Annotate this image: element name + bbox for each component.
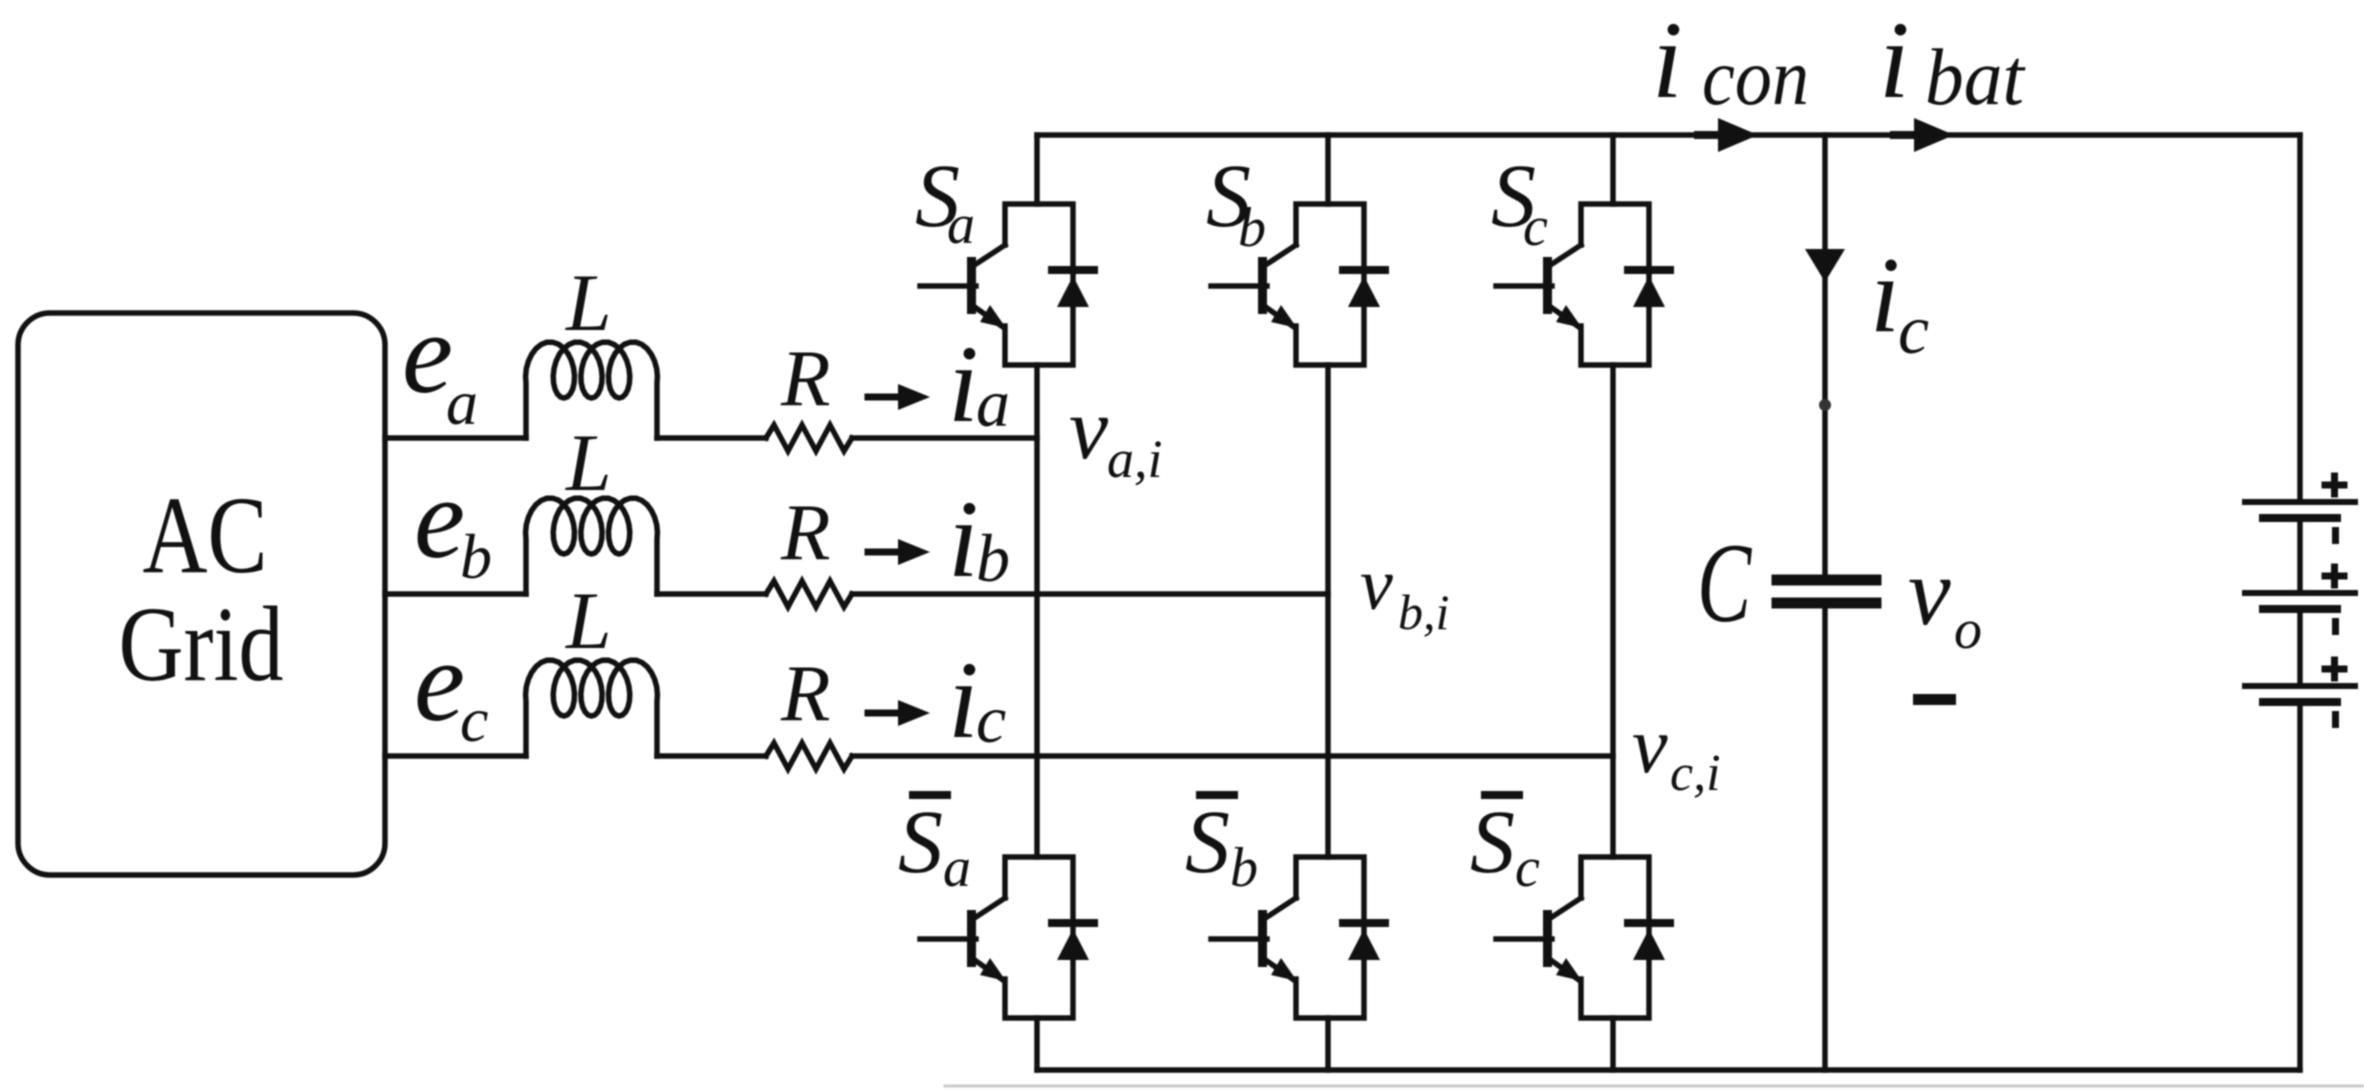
battery cell 1 <box>2245 476 2355 544</box>
svg-text:b: b <box>1230 837 1258 899</box>
label S_b bar <box>1196 791 1238 799</box>
svg-text:a,i: a,i <box>1107 429 1163 489</box>
label minus of v_o <box>1913 694 1956 705</box>
svg-text:c: c <box>460 684 488 755</box>
svg-text:v: v <box>1069 381 1109 478</box>
svg-text:i: i <box>1879 0 1910 121</box>
svg-text:L: L <box>565 257 612 348</box>
arrow i_a <box>868 394 898 401</box>
artifact dot on capacitor wire <box>1819 399 1831 411</box>
AC Grid source box <box>18 313 385 875</box>
IGBT switch Sa <box>920 204 1094 365</box>
svg-text:i: i <box>948 478 979 600</box>
svg-text:i: i <box>948 323 979 445</box>
svg-text:Grid: Grid <box>119 586 284 704</box>
svg-text:c: c <box>1523 196 1548 258</box>
inductor L phase b <box>526 498 658 594</box>
IGBT switch Sc <box>1496 204 1670 365</box>
label S_c bar <box>1481 791 1523 799</box>
leg phase a <box>1034 135 1040 1070</box>
battery cell 3 <box>2245 660 2355 728</box>
capacitor C <box>1777 575 1876 586</box>
wire phase a <box>385 435 1037 441</box>
arrow i_c (down) <box>1805 249 1845 282</box>
svg-text:v: v <box>1632 702 1668 790</box>
wire phase c <box>385 753 1613 759</box>
inductor L phase a <box>526 342 658 438</box>
svg-text:e: e <box>414 455 465 582</box>
arrow i_c <box>868 710 898 717</box>
resistor R phase c <box>766 743 852 769</box>
svg-text:C: C <box>1697 521 1752 646</box>
svg-text:R: R <box>780 333 830 423</box>
svg-text:o: o <box>1954 599 1982 661</box>
svg-text:a: a <box>446 367 478 438</box>
leg phase b <box>1325 135 1331 1070</box>
svg-text:i: i <box>948 639 979 761</box>
svg-text:c: c <box>976 681 1006 757</box>
svg-text:L: L <box>565 575 612 666</box>
arrow i_con <box>1698 118 1758 152</box>
svg-text:R: R <box>780 487 830 577</box>
svg-text:b: b <box>1238 197 1266 259</box>
arrow i_b <box>868 549 898 556</box>
svg-text:e: e <box>414 618 465 745</box>
svg-text:S: S <box>1470 793 1515 892</box>
resistor R phase a <box>766 425 852 451</box>
svg-text:c: c <box>1515 837 1540 899</box>
svg-text:v: v <box>1360 544 1393 626</box>
svg-text:c: c <box>1898 292 1929 369</box>
svg-text:bat: bat <box>1925 34 2026 122</box>
svg-text:a: a <box>976 365 1010 441</box>
svg-text:v: v <box>1908 538 1951 645</box>
svg-text:S: S <box>898 793 943 892</box>
svg-text:c,i: c,i <box>1670 745 1721 802</box>
svg-text:con: con <box>1702 34 1809 122</box>
IGBT switch Sa-bar <box>920 857 1094 1018</box>
svg-text:b: b <box>976 520 1010 596</box>
leg phase c <box>1610 135 1616 1070</box>
battery branch wire <box>2297 135 2303 1070</box>
svg-text:AC: AC <box>143 474 268 596</box>
IGBT switch Sb <box>1211 204 1385 365</box>
capacitor branch wire <box>1822 135 1828 1070</box>
bottom scan artifact line <box>945 1085 2364 1088</box>
inductor L phase c <box>526 660 658 756</box>
svg-text:R: R <box>780 648 830 738</box>
arrow i_bat <box>1894 118 1954 152</box>
IGBT switch Sb-bar <box>1211 857 1385 1018</box>
svg-text:b,i: b,i <box>1398 584 1449 640</box>
label S_a bar <box>909 791 951 799</box>
battery cell 2 <box>2245 567 2355 635</box>
svg-text:a: a <box>943 837 971 899</box>
IGBT switch Sc-bar <box>1496 857 1670 1018</box>
wire phase b <box>385 591 1328 597</box>
bottom DC bus <box>1037 1067 2300 1073</box>
svg-text:i: i <box>1870 236 1900 355</box>
top DC bus <box>1037 132 2300 138</box>
svg-text:b: b <box>460 521 492 592</box>
resistor R phase b <box>766 581 852 607</box>
svg-text:L: L <box>565 417 612 508</box>
svg-text:S: S <box>1185 793 1230 892</box>
svg-text:i: i <box>1652 0 1683 121</box>
svg-text:a: a <box>947 194 975 256</box>
